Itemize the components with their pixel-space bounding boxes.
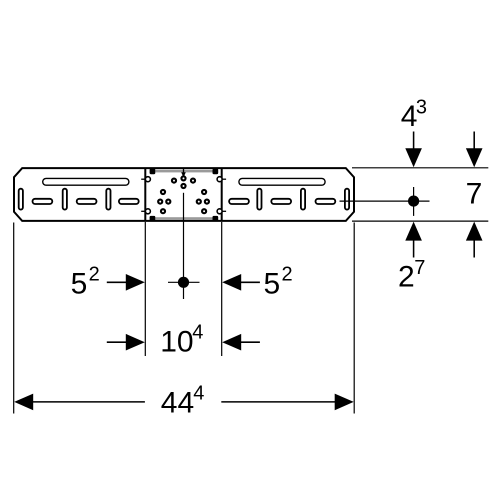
svg-text:2: 2 <box>398 261 415 294</box>
centre connector corner tabs <box>150 169 219 221</box>
dimension 10.4 <box>107 322 260 359</box>
right section horizontal slots <box>229 199 335 204</box>
centre connector grey strip bottom <box>155 217 212 220</box>
svg-text:5: 5 <box>264 267 281 300</box>
datum dot right <box>340 187 430 216</box>
small arrow at plate top centre <box>181 168 186 177</box>
extension line far left <box>13 223 15 414</box>
dimension 4.3 <box>401 96 427 167</box>
dimension 44.4 <box>14 382 354 419</box>
svg-text:44: 44 <box>161 387 194 420</box>
junction line right <box>221 168 223 221</box>
left section horizontal slots <box>33 199 139 204</box>
left section vertical slots <box>19 189 111 210</box>
svg-text:4: 4 <box>192 322 203 344</box>
svg-text:2: 2 <box>89 264 100 286</box>
svg-text:4: 4 <box>193 382 204 404</box>
junction rivet rings with ticks <box>141 177 226 214</box>
svg-text:10: 10 <box>160 326 193 359</box>
centre hole pattern (donut holes) <box>158 176 209 213</box>
svg-text:2: 2 <box>282 264 293 286</box>
long slot right <box>239 178 325 185</box>
centre axis line through plate down to datum dot <box>183 193 185 299</box>
svg-text:5: 5 <box>71 267 88 300</box>
svg-text:3: 3 <box>416 96 427 118</box>
dimension 2.7 <box>398 222 425 294</box>
svg-text:7: 7 <box>414 257 425 279</box>
dimension 7 <box>466 132 483 258</box>
centre connector grey strip top <box>155 170 212 173</box>
dimension 5.2 right <box>222 264 292 301</box>
dimension 5.2 left <box>71 264 145 301</box>
datum dot centre <box>168 277 200 288</box>
junction line left <box>144 168 146 221</box>
extension line left junction <box>144 222 146 356</box>
extension line plate bottom right <box>352 220 488 222</box>
svg-text:4: 4 <box>401 100 418 133</box>
extension line far right <box>353 223 355 414</box>
extension line right junction <box>221 222 223 356</box>
svg-text:7: 7 <box>466 177 483 210</box>
long slot left <box>43 178 129 185</box>
extension line plate top right <box>352 167 488 169</box>
plate outline <box>14 168 354 221</box>
right section vertical slots <box>257 189 349 210</box>
